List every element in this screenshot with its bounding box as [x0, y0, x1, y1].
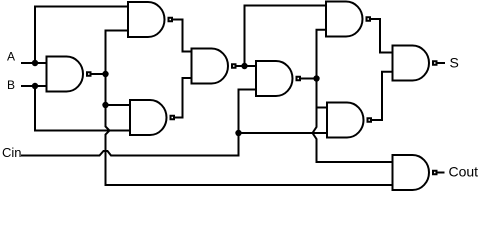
svg-text:S: S: [450, 55, 459, 71]
svg-text:A: A: [7, 50, 15, 64]
svg-text:Cin: Cin: [2, 145, 22, 160]
svg-text:Cout: Cout: [449, 164, 479, 180]
svg-text:B: B: [7, 78, 15, 92]
